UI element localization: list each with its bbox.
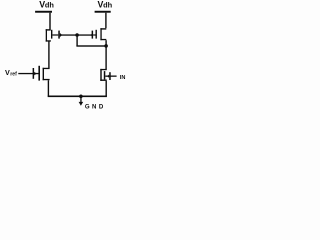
wire: bottom source rail <box>48 96 107 98</box>
svg-text:GND: GND <box>85 104 106 111</box>
transistor Q1 gate arrow bar <box>58 31 60 39</box>
transistor Q1 (PMOS left) top jog <box>46 29 51 30</box>
ground stem <box>80 96 81 102</box>
wire: left branch Q1 drain down to Q3 drain <box>48 41 49 68</box>
wire: mirror drain tie horizontal <box>76 45 106 46</box>
wire: right supply stem <box>105 13 106 29</box>
transistor Q2 top jog <box>100 28 106 29</box>
wire: Q4 gate lead to IN <box>105 76 116 77</box>
junction node at GND tap <box>79 95 83 99</box>
power supply bar Vdh (left) <box>35 11 52 13</box>
transistor Q4 gate arrow wing <box>107 75 109 78</box>
transistor Q2 gate bar <box>96 30 97 39</box>
transistor Q1 gate lead stub <box>52 34 58 35</box>
svg-text:dh: dh <box>45 1 55 10</box>
wire: Q4 source lead down <box>106 81 107 97</box>
wire: left supply stem <box>49 13 50 30</box>
transistor Q3 (NMOS left) gate arrow bar <box>33 68 35 79</box>
transistor Q4 gate bar <box>104 71 106 79</box>
transistor Q4 (NMOS right) top jog <box>100 69 107 70</box>
transistor Q3 top jog <box>43 68 50 69</box>
transistor Q3 gate bar <box>38 66 40 81</box>
svg-text:ref: ref <box>10 71 17 77</box>
wire: right branch Q2 drain down to Q4 drain <box>105 40 106 69</box>
wire: mirror gate bus <box>60 34 92 35</box>
svg-text:dh: dh <box>103 0 113 9</box>
junction node at right drain <box>104 44 108 48</box>
svg-text:IN: IN <box>120 75 126 81</box>
transistor Q1 gate bar <box>51 30 52 39</box>
power supply bar Vdh (right) <box>95 11 111 13</box>
transistor Q2 channel bar <box>100 28 101 40</box>
transistor Q1 channel bar <box>46 29 47 41</box>
transistor Q4 bottom jog <box>100 80 107 81</box>
transistor Q2 gate arrow bar <box>92 31 94 39</box>
ground arrow <box>79 102 84 106</box>
transistor Q3 channel bar <box>43 68 44 80</box>
transistor Q3 gate arrow wing <box>34 72 36 76</box>
transistor Q1 gate arrow wing <box>60 33 62 37</box>
junction node on gate bus <box>75 33 79 37</box>
wire: Vref gate lead <box>18 73 38 74</box>
wire: gate-to-drain drop of mirror <box>76 35 77 46</box>
transistor Q2 gate lead stub <box>93 34 96 35</box>
transistor Q1 bottom jog <box>46 40 51 41</box>
transistor Q4 gate arrow bar <box>109 72 111 80</box>
transistor Q4 channel bar <box>100 69 101 81</box>
transistor Q3 bottom jog <box>43 79 50 80</box>
transistor Q2 bottom jog <box>100 39 106 40</box>
transistor Q2 (PMOS right) gate arrow wing <box>91 33 93 37</box>
wire: Q3 source lead down <box>48 80 49 96</box>
